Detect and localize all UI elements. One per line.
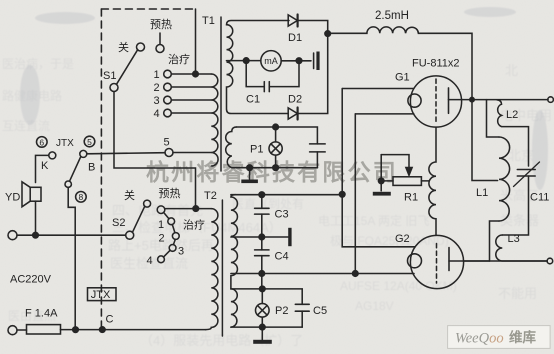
svg-text:5: 5	[164, 137, 170, 149]
svg-text:电工工15A 两定 旧飞: 电工工15A 两定 旧飞	[318, 213, 429, 228]
svg-text:G2: G2	[395, 233, 410, 245]
svg-text:4: 4	[147, 255, 153, 267]
svg-text:D1: D1	[288, 32, 302, 44]
svg-text:R1: R1	[404, 192, 418, 204]
svg-text:K: K	[41, 160, 49, 172]
svg-text:维库: 维库	[509, 329, 537, 345]
svg-text:预热: 预热	[150, 18, 172, 31]
svg-text:4: 4	[154, 108, 160, 120]
svg-text:P2: P2	[275, 305, 288, 317]
svg-text:2: 2	[159, 233, 165, 245]
svg-text:医治病，于是: 医治病，于是	[2, 56, 74, 71]
svg-text:C1: C1	[246, 94, 260, 106]
svg-text:JTX: JTX	[91, 289, 111, 301]
svg-text:5: 5	[87, 137, 92, 147]
svg-text:北京: 北京	[508, 148, 534, 163]
svg-text:1: 1	[154, 69, 160, 81]
svg-text:3: 3	[178, 246, 184, 258]
svg-text:T2: T2	[204, 190, 217, 202]
svg-text:FU-811x2: FU-811x2	[412, 58, 459, 70]
svg-text:不能用: 不能用	[498, 286, 537, 301]
svg-text:L3: L3	[508, 233, 520, 245]
svg-text:类条器: 类条器	[500, 213, 539, 228]
svg-text:F 1.4A: F 1.4A	[25, 308, 58, 320]
svg-text:P1: P1	[250, 144, 263, 156]
svg-text:AC220V: AC220V	[10, 274, 52, 286]
svg-text:C3: C3	[275, 209, 289, 221]
svg-text:北: 北	[505, 63, 518, 78]
svg-text:3: 3	[154, 95, 160, 107]
svg-text:JTX: JTX	[56, 138, 74, 149]
svg-text:S2: S2	[112, 217, 125, 229]
svg-text:关: 关	[124, 188, 135, 202]
svg-text:C5: C5	[313, 305, 327, 317]
svg-text:AG18V: AG18V	[355, 299, 394, 313]
svg-text:G1: G1	[395, 72, 410, 84]
svg-text:6: 6	[39, 137, 44, 147]
svg-text:L2: L2	[506, 109, 518, 121]
svg-text:D2: D2	[288, 94, 302, 106]
svg-text:杭州将睿科技有限公司: 杭州将睿科技有限公司	[146, 159, 398, 185]
svg-text:B: B	[88, 162, 95, 174]
svg-text:2: 2	[154, 82, 160, 94]
svg-text:预热: 预热	[159, 187, 181, 200]
svg-text:T1: T1	[202, 15, 215, 27]
svg-text:治疗: 治疗	[183, 218, 205, 232]
svg-text:C: C	[106, 314, 114, 326]
svg-text:8: 8	[79, 192, 84, 202]
svg-text:S1: S1	[103, 70, 116, 82]
svg-text:2.5mH: 2.5mH	[375, 10, 409, 22]
svg-text:YD: YD	[5, 192, 20, 204]
svg-text:L1: L1	[476, 187, 488, 199]
svg-text:治疗: 治疗	[168, 52, 190, 66]
svg-text:WeeQoo: WeeQoo	[455, 331, 504, 347]
svg-text:AUFSE 12A(40 OKM): AUFSE 12A(40 OKM)	[340, 279, 457, 293]
svg-text:1: 1	[158, 219, 164, 231]
svg-text:C4: C4	[275, 251, 289, 263]
svg-text:mA: mA	[264, 56, 278, 66]
svg-text:（4）服装先用电路（扩）了: （4）服装先用电路（扩）了	[140, 333, 303, 348]
svg-text:C11: C11	[530, 192, 549, 204]
svg-text:关: 关	[118, 40, 129, 54]
